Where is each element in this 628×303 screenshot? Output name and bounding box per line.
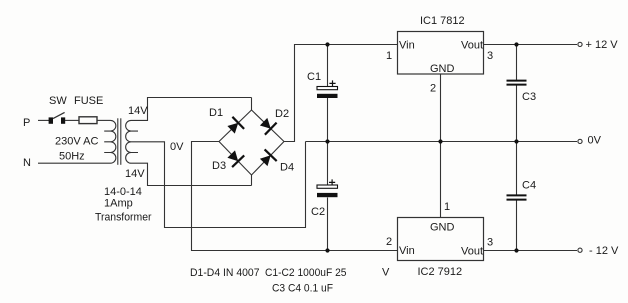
svg-text:P: P bbox=[23, 117, 30, 129]
svg-text:14V: 14V bbox=[128, 105, 148, 117]
svg-text:D1: D1 bbox=[209, 107, 223, 119]
svg-text:14-0-14: 14-0-14 bbox=[104, 186, 142, 198]
svg-text:D1-D4 IN 4007: D1-D4 IN 4007 bbox=[190, 267, 260, 279]
wire IC1 GND to IC2 GND bbox=[440, 74, 442, 218]
IC2 7912 regulator box bbox=[398, 218, 484, 261]
svg-text:C4: C4 bbox=[522, 180, 536, 192]
svg-text:N: N bbox=[23, 157, 31, 169]
svg-text:Vin: Vin bbox=[399, 40, 415, 52]
svg-text:1: 1 bbox=[444, 201, 450, 213]
junction node C2/-rail bbox=[325, 248, 329, 252]
svg-text:Vin: Vin bbox=[399, 245, 415, 257]
svg-text:IC1 7812: IC1 7812 bbox=[420, 15, 465, 27]
svg-text:C1-C2 1000uF 25: C1-C2 1000uF 25 bbox=[265, 267, 347, 279]
svg-text:V: V bbox=[382, 267, 390, 279]
terminal -12V bbox=[578, 248, 582, 252]
capacitor C4 bbox=[507, 195, 527, 199]
svg-text:2: 2 bbox=[430, 83, 436, 95]
junction node C1/+rail bbox=[325, 42, 329, 46]
svg-text:+ 12 V: + 12 V bbox=[586, 39, 619, 51]
wire bridge top stub bbox=[251, 98, 253, 111]
svg-text:SW: SW bbox=[49, 95, 67, 107]
wire P line bbox=[38, 119, 49, 121]
terminal 0V bbox=[578, 139, 582, 143]
diode D2 bbox=[260, 118, 277, 135]
wire secondary top lead 14V bbox=[131, 98, 252, 121]
svg-text:FUSE: FUSE bbox=[74, 95, 103, 107]
svg-text:1Amp: 1Amp bbox=[104, 198, 133, 210]
bridge diamond edges bbox=[219, 110, 284, 175]
capacitor C2 wires bbox=[327, 142, 329, 251]
wire fuse to transformer bbox=[97, 119, 111, 121]
capacitor C1 (electrolytic) bbox=[317, 80, 338, 98]
wire bridge bottom stub bbox=[251, 175, 253, 186]
svg-text:C2: C2 bbox=[311, 206, 325, 218]
svg-text:C1: C1 bbox=[307, 71, 321, 83]
svg-text:230V AC: 230V AC bbox=[55, 136, 98, 148]
svg-text:D2: D2 bbox=[275, 108, 289, 120]
junction node C1-C2/0V rail bbox=[325, 139, 329, 143]
svg-text:D4: D4 bbox=[280, 162, 294, 174]
diode D3 bbox=[227, 150, 244, 167]
capacitor C1 wires bbox=[327, 45, 329, 142]
svg-text:D3: D3 bbox=[212, 160, 226, 172]
IC1 7812 regulator box bbox=[398, 32, 484, 75]
svg-text:C3 C4 0.1 uF: C3 C4 0.1 uF bbox=[272, 283, 333, 295]
svg-text:Vout: Vout bbox=[461, 40, 483, 52]
terminal +12V bbox=[578, 42, 582, 46]
svg-text:GND: GND bbox=[430, 222, 455, 234]
transformer primary winding bbox=[104, 120, 116, 163]
wire negative rail IC2 Vout to -12V terminal bbox=[483, 250, 577, 252]
svg-text:C3: C3 bbox=[522, 91, 536, 103]
capacitor C3 wires bbox=[516, 45, 518, 142]
svg-text:1: 1 bbox=[386, 50, 392, 62]
junction node C4/-rail bbox=[514, 248, 518, 252]
svg-text:- 12 V: - 12 V bbox=[589, 245, 619, 257]
capacitor C2 (electrolytic) bbox=[317, 179, 338, 197]
svg-text:3: 3 bbox=[487, 50, 493, 62]
wire bridge negative lead bbox=[192, 142, 399, 251]
wire switch to fuse bbox=[65, 119, 79, 121]
wire 0V rail bbox=[306, 141, 578, 143]
svg-text:GND: GND bbox=[430, 63, 455, 75]
wire N line bbox=[38, 162, 111, 164]
wire secondary centre tap 0V bbox=[131, 142, 306, 228]
transformer secondary winding bbox=[126, 120, 138, 163]
svg-text:Vout: Vout bbox=[461, 246, 483, 258]
diode D4 bbox=[260, 149, 277, 166]
svg-text:IC2 7912: IC2 7912 bbox=[418, 266, 463, 278]
svg-text:0V: 0V bbox=[170, 141, 184, 153]
capacitor C4 wires bbox=[516, 142, 518, 251]
wire positive rail IC1 Vout to +12V terminal bbox=[483, 44, 577, 46]
svg-text:50Hz: 50Hz bbox=[59, 151, 85, 163]
svg-text:Transformer: Transformer bbox=[95, 212, 152, 224]
junction node C3/+rail bbox=[514, 42, 518, 46]
svg-text:3: 3 bbox=[487, 237, 493, 249]
svg-text:14V: 14V bbox=[125, 168, 145, 180]
fuse FUSE bbox=[79, 117, 97, 124]
junction node C3-C4/0V rail bbox=[514, 139, 518, 143]
diode D1 bbox=[227, 117, 244, 134]
capacitor C3 bbox=[507, 81, 527, 85]
wire secondary bottom lead 14V bbox=[131, 163, 252, 185]
transformer core bbox=[118, 118, 121, 165]
wire bridge positive lead bbox=[284, 45, 398, 142]
junction node GND/0V rail bbox=[438, 139, 442, 143]
switch SW bbox=[49, 112, 66, 123]
svg-text:0V: 0V bbox=[588, 135, 602, 147]
svg-text:2: 2 bbox=[386, 236, 392, 248]
